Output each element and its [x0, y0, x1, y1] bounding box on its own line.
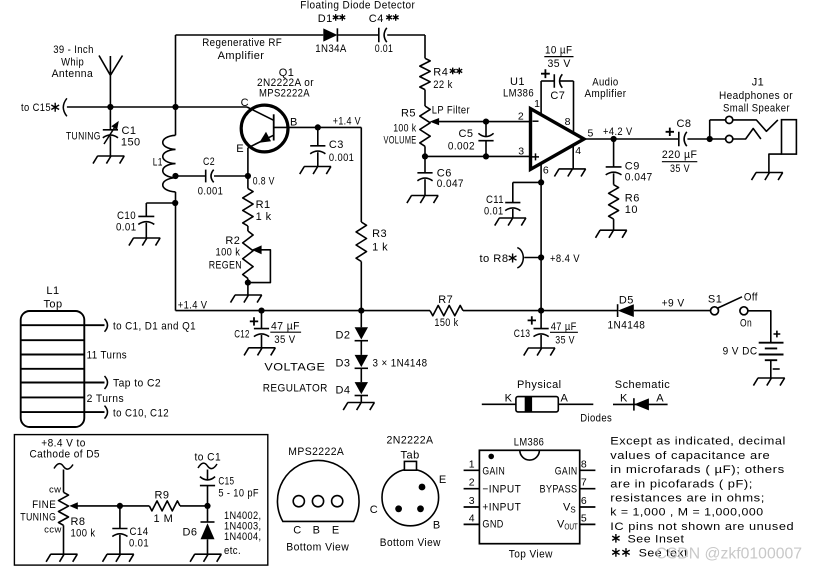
- arrow C1 tuning: [104, 123, 117, 144]
- svg-text:Top View: Top View: [509, 548, 553, 560]
- svg-text:8: 8: [565, 116, 571, 128]
- svg-text:5: 5: [581, 513, 587, 525]
- wire output: [584, 138, 679, 140]
- package MPS2222A pin E: [332, 496, 343, 507]
- svg-text:cw: cw: [49, 485, 62, 496]
- wire C3 top lead: [317, 127, 319, 145]
- diode D2: [355, 327, 368, 339]
- wire C2 right lead: [214, 175, 248, 177]
- svg-text:C8: C8: [677, 118, 692, 130]
- svg-text:47 µF: 47 µF: [271, 321, 300, 333]
- ground under C10: [129, 238, 160, 246]
- svg-text:1N4004,: 1N4004,: [224, 531, 262, 543]
- svg-text:+1.4 V: +1.4 V: [178, 300, 208, 312]
- wire C11 horizontal: [513, 181, 541, 183]
- stars see text: [612, 548, 619, 557]
- svg-text:D4: D4: [336, 385, 351, 397]
- diode D5: [617, 304, 619, 317]
- svg-text:C14: C14: [130, 526, 149, 538]
- wire C10 top lead: [145, 203, 147, 216]
- contact J1 tip: [726, 116, 733, 123]
- svg-text:D1: D1: [318, 13, 333, 25]
- wire inset top lead: [63, 470, 65, 493]
- wire pin3 horizontal: [425, 155, 531, 157]
- diode D6: [201, 521, 215, 523]
- wire C11 bottom lead: [512, 209, 514, 218]
- wire top bus: [176, 34, 324, 36]
- svg-text:Schematic: Schematic: [615, 379, 670, 391]
- svg-text:9 V DC: 9 V DC: [723, 346, 758, 358]
- tap to C1 D1 Q1: [84, 324, 104, 326]
- svg-text:Bottom View: Bottom View: [380, 537, 441, 549]
- wire J1 tip spring: [733, 120, 778, 131]
- jack J1 body: [782, 120, 797, 154]
- svg-text:39 - Inch: 39 - Inch: [53, 44, 94, 56]
- svg-text:5 - 10 pF: 5 - 10 pF: [218, 487, 259, 499]
- svg-text:C10: C10: [117, 210, 136, 222]
- svg-text:6: 6: [543, 165, 549, 177]
- node inset wiper junction: [117, 503, 123, 509]
- battery B1 9V: [759, 343, 784, 361]
- wire D1-C4: [337, 34, 378, 36]
- minus input sign: [533, 120, 539, 122]
- svg-text:10 µF: 10 µF: [545, 45, 572, 57]
- capacitor C3: [310, 146, 325, 154]
- wire J1 tip lead: [710, 119, 726, 121]
- svg-text:R2: R2: [225, 235, 240, 247]
- svg-text:35 V: 35 V: [274, 334, 295, 346]
- wire C4 to corner: [387, 34, 425, 36]
- ground under C11: [495, 218, 526, 226]
- ground under R8: [46, 554, 77, 562]
- svg-text:Bottom View: Bottom View: [286, 542, 349, 554]
- svg-text:GND: GND: [482, 518, 503, 530]
- svg-text:100 k: 100 k: [71, 527, 96, 539]
- svg-text:C1: C1: [122, 125, 137, 137]
- svg-text:2 Turns: 2 Turns: [87, 393, 125, 405]
- svg-text:C5: C5: [459, 128, 474, 140]
- svg-text:U1: U1: [510, 76, 525, 88]
- svg-text:VOLTAGE: VOLTAGE: [264, 361, 325, 373]
- svg-text:C: C: [370, 504, 378, 516]
- svg-text:TUNING: TUNING: [66, 130, 101, 142]
- wire C13 top lead: [540, 311, 542, 329]
- wire pin6 down: [540, 163, 542, 311]
- svg-text:1N34A: 1N34A: [315, 43, 347, 55]
- svg-text:100 k: 100 k: [393, 123, 416, 135]
- switch S1 pole: [711, 307, 719, 315]
- svg-text:IC pins not shown are unused: IC pins not shown are unused: [610, 521, 794, 533]
- svg-text:resistances are in ohms;: resistances are in ohms;: [610, 493, 765, 505]
- wire C10 horizontal: [146, 202, 175, 204]
- bracket to R8: [517, 248, 523, 268]
- node rail-C12: [258, 308, 264, 314]
- inset box: [14, 435, 267, 565]
- diode D3: [355, 355, 368, 367]
- fraction bar C8: [662, 161, 697, 163]
- svg-text:Regenerative RF: Regenerative RF: [202, 37, 282, 49]
- svg-text:Whip: Whip: [61, 57, 84, 69]
- svg-text:1N4148: 1N4148: [608, 319, 646, 331]
- svg-text:values of capacitance are: values of capacitance are: [610, 450, 770, 462]
- svg-text:C12: C12: [234, 329, 250, 341]
- node R2 bottom junction: [245, 280, 251, 286]
- wire D5 to S1: [634, 310, 711, 312]
- wire C9 top lead: [613, 139, 615, 167]
- minus battery: [773, 368, 780, 370]
- package MPS2222A pin C: [293, 496, 304, 507]
- svg-text:See Inset: See Inset: [628, 533, 685, 545]
- resistor R3: [356, 222, 366, 262]
- svg-text:5: 5: [588, 127, 594, 139]
- svg-text:3: 3: [518, 146, 524, 158]
- svg-text:3 × 1N4148: 3 × 1N4148: [373, 357, 428, 369]
- svg-text:3: 3: [469, 495, 475, 507]
- svg-text:0.01: 0.01: [484, 206, 504, 218]
- wire C12 bottom lead: [261, 335, 263, 348]
- transistor Q1 base bar: [273, 114, 275, 140]
- wire C7 left lead: [541, 80, 554, 82]
- svg-text:Small Speaker: Small Speaker: [723, 102, 790, 114]
- svg-text:+4.2 V: +4.2 V: [603, 126, 633, 138]
- wire J1 tip riser: [709, 120, 711, 139]
- wire C5 bottom lead: [485, 141, 487, 157]
- wire R1-R2: [247, 226, 249, 231]
- wire R9 to junction: [180, 505, 208, 507]
- node pin6-C11: [538, 179, 544, 185]
- svg-text:Amplifier: Amplifier: [218, 50, 265, 62]
- capacitor C10: [138, 216, 154, 224]
- node C5 top: [483, 119, 489, 125]
- svg-text:Physical: Physical: [517, 379, 562, 391]
- svg-text:R4: R4: [433, 67, 448, 79]
- ground under C14: [103, 554, 134, 562]
- fraction bar C13: [550, 331, 578, 333]
- tap to C2: [84, 382, 104, 384]
- coil L1 form: [21, 311, 85, 427]
- svg-text:R5: R5: [401, 107, 416, 119]
- ground under C13: [524, 348, 555, 356]
- svg-text:GAIN: GAIN: [555, 465, 578, 477]
- wire R2 bottom: [247, 279, 249, 296]
- svg-text:E: E: [439, 474, 447, 486]
- package 2N2222A dot B: [417, 505, 424, 512]
- package MPS2222A outline: [277, 460, 359, 521]
- svg-text:K: K: [620, 393, 628, 405]
- svg-text:35 V: 35 V: [670, 163, 690, 175]
- svg-text:0.8 V: 0.8 V: [253, 176, 275, 188]
- resistor R9: [149, 501, 180, 511]
- svg-text:8: 8: [581, 458, 587, 470]
- ground under D6: [190, 554, 221, 562]
- ground under battery: [753, 378, 784, 386]
- svg-text:D2: D2: [336, 330, 351, 342]
- svg-text:k = 1,000 , M = 1,000,000: k = 1,000 , M = 1,000,000: [610, 507, 763, 519]
- wire R7 to D5: [463, 310, 618, 312]
- svg-text:7: 7: [581, 477, 587, 489]
- svg-text:150 k: 150 k: [434, 317, 458, 329]
- wire C10 bottom lead: [145, 223, 147, 238]
- svg-text:22 k: 22 k: [433, 79, 452, 91]
- op-amp U1 triangle: [531, 109, 585, 170]
- svg-text:35 V: 35 V: [548, 58, 571, 70]
- capacitor C2: [206, 170, 214, 183]
- svg-text:L1: L1: [153, 157, 163, 169]
- wire Q1 emitter diagonal: [248, 135, 274, 148]
- wire D6 top lead: [207, 506, 209, 522]
- svg-text:C4: C4: [369, 13, 384, 25]
- physical diode band: [525, 397, 532, 412]
- ground under C1: [93, 156, 124, 164]
- svg-text:to C1: to C1: [195, 452, 222, 464]
- svg-text:A: A: [656, 393, 664, 405]
- svg-text:to C10, C12: to C10, C12: [113, 408, 169, 420]
- switch S1 lever: [718, 297, 742, 308]
- wire C15 top lead: [207, 470, 209, 481]
- wire C11 top lead: [512, 182, 514, 202]
- IC pin stubs: [464, 470, 596, 524]
- wire L1 bottom vertical: [175, 192, 177, 311]
- wire C6 bottom lead: [424, 179, 426, 195]
- fraction bar C7: [544, 56, 573, 58]
- wire C9-R6: [613, 173, 615, 184]
- wire base corner vertical: [360, 127, 362, 222]
- svg-text:TUNING: TUNING: [20, 511, 56, 523]
- wire R3 bottom: [360, 262, 362, 311]
- svg-text:CSDN @zkf0100007: CSDN @zkf0100007: [656, 546, 803, 563]
- coil L1 windings: [21, 325, 85, 412]
- svg-text:0.002: 0.002: [448, 141, 475, 153]
- svg-text:2: 2: [518, 111, 524, 123]
- wire C12 top lead: [261, 311, 263, 329]
- wire pin4 down: [572, 144, 574, 169]
- svg-text:Diodes: Diodes: [580, 413, 612, 425]
- ground pin4: [554, 169, 585, 177]
- wire R8 wiper to junction: [77, 505, 149, 507]
- svg-text:C7: C7: [550, 90, 565, 102]
- svg-text:LM386: LM386: [503, 88, 534, 100]
- node L1-C10 tap: [172, 200, 178, 206]
- wire rail to D2: [360, 311, 362, 328]
- package 2N2222A dot E: [419, 484, 426, 491]
- ground under C6: [407, 196, 438, 204]
- svg-text:+8.4 V to: +8.4 V to: [41, 437, 86, 449]
- physical diode body: [516, 397, 558, 412]
- svg-text:D3: D3: [336, 357, 351, 369]
- svg-text:1: 1: [469, 458, 475, 470]
- ground under D4: [343, 403, 374, 411]
- star to R8: [509, 254, 517, 263]
- svg-text:D6: D6: [183, 526, 198, 538]
- svg-text:FINE: FINE: [32, 499, 56, 511]
- capacitor C12: [254, 329, 269, 337]
- capacitor C4: [379, 28, 387, 42]
- capacitor C13: [534, 329, 549, 337]
- svg-text:Tab: Tab: [401, 449, 420, 461]
- svg-text:S1: S1: [708, 293, 722, 305]
- inductor L1: [163, 135, 176, 192]
- svg-text:150: 150: [121, 137, 141, 149]
- node base-C3 junction: [315, 124, 321, 130]
- capacitor C6: [417, 173, 432, 181]
- wire physical diode: [482, 403, 594, 405]
- wire C8 to J1: [687, 138, 709, 140]
- wire Q1 emitter vertical: [247, 148, 249, 176]
- svg-text:LM386: LM386: [514, 436, 545, 448]
- svg-text:MPS2222A: MPS2222A: [259, 87, 310, 99]
- ground under C12: [244, 348, 275, 356]
- resistor R5 volume pot: [420, 106, 430, 146]
- wire detector vertical: [424, 35, 426, 58]
- svg-text:+9 V: +9 V: [662, 298, 685, 310]
- svg-text:J1: J1: [752, 76, 765, 88]
- svg-text:1 k: 1 k: [372, 241, 388, 253]
- svg-text:Antenna: Antenna: [52, 68, 94, 80]
- package 2N2222A tab: [404, 461, 416, 470]
- wire C1 top lead: [109, 107, 111, 129]
- wire D6 bottom lead: [207, 539, 209, 554]
- contact J1 ring: [726, 135, 733, 142]
- switch S1 throw: [740, 307, 748, 315]
- svg-text:R8: R8: [71, 516, 86, 528]
- node emitter junction: [245, 173, 251, 179]
- schematic diode symbol: [633, 398, 635, 410]
- resistor R8 fine tuning pot: [59, 492, 69, 525]
- plus C7: [541, 69, 550, 78]
- node rail-C13: [538, 308, 544, 314]
- plus C8: [666, 128, 674, 136]
- svg-text:R6: R6: [625, 192, 640, 204]
- capacitor C9: [606, 167, 622, 175]
- svg-text:C2: C2: [203, 156, 215, 168]
- svg-text:E: E: [236, 143, 244, 155]
- svg-text:REGULATOR: REGULATOR: [263, 382, 328, 394]
- node C5 bottom: [483, 153, 489, 159]
- arrow R5 wiper: [430, 118, 440, 125]
- wire R5 bottom junction: [424, 146, 426, 156]
- stars D1: [333, 14, 339, 21]
- svg-text:etc.: etc.: [224, 545, 241, 557]
- svg-text:+8.4 V: +8.4 V: [550, 253, 580, 265]
- svg-text:47 µF: 47 µF: [551, 321, 577, 333]
- wire D3-D4: [360, 368, 362, 382]
- resistor R1: [243, 189, 253, 227]
- svg-text:2N2222A: 2N2222A: [387, 434, 434, 446]
- svg-text:B: B: [313, 524, 321, 536]
- svg-text:Amplifier: Amplifier: [585, 88, 627, 100]
- svg-text:C3: C3: [329, 139, 344, 151]
- svg-text:Audio: Audio: [592, 77, 618, 89]
- capacitor C7: [554, 74, 562, 88]
- svg-text:R3: R3: [372, 228, 387, 240]
- svg-text:R1: R1: [256, 199, 271, 211]
- svg-text:On: On: [740, 317, 752, 329]
- wire D2-D3: [360, 341, 362, 355]
- svg-text:2: 2: [469, 477, 475, 489]
- capacitor C14: [112, 529, 127, 537]
- svg-text:1 M: 1 M: [154, 513, 174, 525]
- wire emitter to R1: [247, 176, 249, 189]
- package MPS2222A pin B: [312, 496, 323, 507]
- resistor R6: [609, 185, 619, 219]
- svg-text:are in picofarads ( pF);: are in picofarads ( pF);: [610, 478, 753, 490]
- fraction bar C12: [270, 331, 301, 333]
- svg-text:0.01: 0.01: [116, 222, 137, 234]
- package 2N2222A dot C: [395, 505, 402, 512]
- svg-text:ccw: ccw: [44, 525, 62, 536]
- ground under R6: [596, 230, 627, 238]
- plus battery: [774, 331, 781, 338]
- wire J1 ring spring: [733, 129, 761, 140]
- svg-text:0.01: 0.01: [129, 538, 149, 550]
- bracket to C15: [63, 98, 67, 116]
- tap to C10 C12: [84, 411, 104, 413]
- capacitor C8: [679, 132, 687, 146]
- wire C5 top lead: [485, 122, 487, 137]
- arrow R8 wiper: [69, 502, 78, 509]
- svg-text:C13: C13: [514, 328, 531, 340]
- svg-text:Tap to C2: Tap to C2: [113, 377, 161, 389]
- wire C14 bottom lead: [119, 535, 121, 554]
- svg-text:in microfarads ( µF); others: in microfarads ( µF); others: [610, 464, 785, 476]
- svg-text:L1: L1: [46, 285, 59, 297]
- node to-R8 junction: [538, 254, 544, 260]
- svg-text:35 V: 35 V: [555, 334, 575, 346]
- transistor Q1 body: [241, 105, 288, 152]
- node R5 bottom: [422, 153, 428, 159]
- svg-text:1: 1: [534, 98, 540, 110]
- svg-text:Floating Diode Detector: Floating Diode Detector: [300, 0, 415, 12]
- wire C1 bottom lead: [109, 136, 111, 156]
- capacitor C5: [478, 133, 493, 140]
- svg-text:220 µF: 220 µF: [662, 149, 697, 161]
- svg-text:BYPASS: BYPASS: [540, 484, 578, 496]
- stars R4: [450, 68, 456, 75]
- wire C14 top lead: [119, 506, 121, 529]
- node antenna-L1 junction: [172, 104, 178, 110]
- wire C13 bottom lead: [540, 335, 542, 348]
- stars C4: [386, 14, 392, 21]
- capacitor C11: [505, 203, 520, 211]
- plus C12: [250, 317, 258, 325]
- node antenna-C1 junction: [107, 104, 113, 110]
- wire battery bottom: [770, 360, 772, 378]
- antenna 39-inch whip: [99, 56, 123, 108]
- IC notch: [520, 450, 540, 460]
- node output-C9: [611, 136, 617, 142]
- star see inset: [612, 534, 619, 543]
- svg-text:+1.4 V: +1.4 V: [333, 116, 361, 128]
- svg-text:Headphones or: Headphones or: [719, 90, 793, 102]
- wire R5 wiper to pin2: [439, 121, 531, 123]
- wire S1 to battery: [748, 311, 771, 343]
- diode D4: [355, 382, 368, 394]
- svg-text:4: 4: [469, 513, 475, 525]
- svg-text:GAIN: GAIN: [482, 465, 505, 477]
- svg-text:1 k: 1 k: [256, 211, 272, 223]
- svg-text:Cathode of D5: Cathode of D5: [29, 449, 100, 461]
- plus input sign: [532, 153, 539, 160]
- ground under R2: [231, 295, 262, 303]
- svg-text:LP Filter: LP Filter: [432, 105, 470, 117]
- wire R4-R5: [424, 90, 426, 106]
- squiggle to C1: [198, 463, 217, 468]
- wire antenna horizontal: [67, 106, 247, 108]
- node rail-D2: [358, 308, 364, 314]
- wire J1 sleeve: [769, 154, 782, 172]
- wire C3 bottom lead: [317, 152, 319, 166]
- svg-text:11 Turns: 11 Turns: [87, 349, 128, 361]
